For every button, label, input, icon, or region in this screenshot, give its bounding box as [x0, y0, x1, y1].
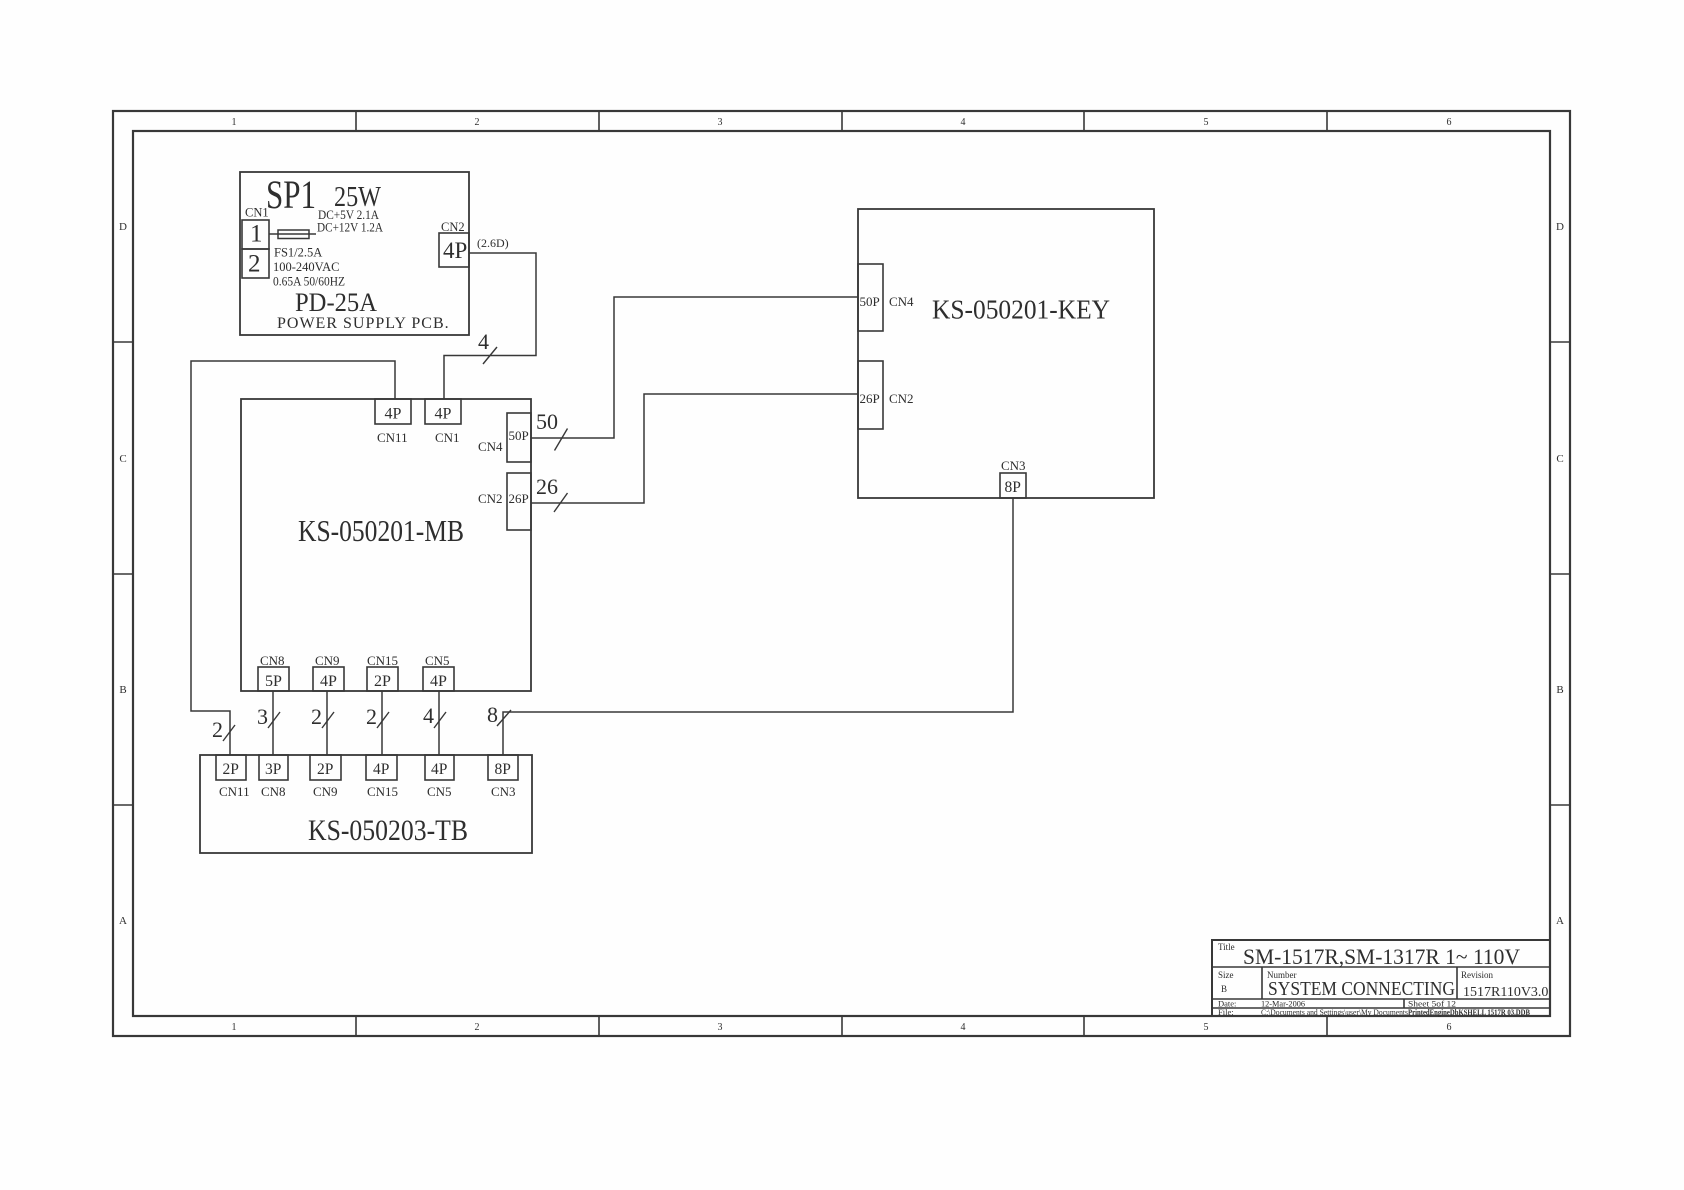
svg-text:2: 2 [311, 704, 322, 729]
svg-text:A: A [1556, 915, 1564, 927]
connector CN3 8P (KEY bottom) [1000, 458, 1026, 498]
svg-text:5: 5 [1204, 117, 1209, 128]
wire KEY CN3 to TB CN3 (8 lines) [503, 498, 1013, 755]
svg-text:0.65A 50/60HZ: 0.65A 50/60HZ [273, 275, 345, 289]
svg-text:CN8: CN8 [261, 784, 286, 799]
wire MB CN11 to TB CN11 [191, 361, 395, 755]
svg-text:4P: 4P [435, 406, 452, 423]
svg-text:CN1: CN1 [435, 430, 460, 445]
fuse FS1 [269, 230, 316, 239]
svg-text:2: 2 [212, 717, 223, 742]
svg-text:4P: 4P [320, 673, 337, 690]
svg-text:SP1: SP1 [266, 172, 316, 217]
svg-text:3P: 3P [265, 761, 281, 778]
svg-text:4P: 4P [385, 406, 402, 423]
connector CN5 4P (MB bottom) [423, 653, 454, 691]
svg-text:4: 4 [478, 329, 489, 354]
svg-text:PrintedEngineDbKSHELL 1517R 03: PrintedEngineDbKSHELL 1517R 03.DDB [1408, 1007, 1530, 1017]
connector CN5 4P (TB) [425, 755, 454, 799]
svg-text:FS1/2.5A: FS1/2.5A [274, 246, 322, 260]
svg-text:Size: Size [1218, 970, 1234, 980]
connector CN11 4P (MB top) [375, 399, 411, 445]
wire MB CN4 to KEY CN4 (50 lines) [531, 297, 858, 438]
svg-text:CN3: CN3 [491, 784, 516, 799]
svg-text:2: 2 [475, 117, 480, 128]
bus width label 26 [536, 474, 568, 512]
svg-text:CN1: CN1 [245, 206, 269, 220]
power supply block SP1 PD-25A [240, 172, 469, 335]
connector CN2 26P (KEY left) [858, 361, 914, 429]
svg-text:CN11: CN11 [377, 430, 408, 445]
svg-text:2: 2 [366, 704, 377, 729]
svg-text:CN2: CN2 [441, 220, 465, 234]
svg-text:100-240VAC: 100-240VAC [273, 260, 339, 274]
svg-text:PD-25A: PD-25A [295, 288, 377, 317]
svg-text:1: 1 [250, 221, 263, 248]
title block frame [1212, 940, 1550, 1016]
connector CN2 4P (SP1) [439, 220, 509, 267]
svg-text:CN3: CN3 [1001, 458, 1026, 473]
svg-text:50P: 50P [860, 294, 880, 309]
svg-text:B: B [1221, 984, 1227, 994]
svg-text:CN2: CN2 [889, 391, 914, 406]
svg-text:C:\Documents and Settings\user: C:\Documents and Settings\user\My Docume… [1261, 1007, 1408, 1017]
svg-text:CN4: CN4 [478, 439, 503, 454]
svg-text:C: C [1556, 453, 1563, 465]
svg-text:2P: 2P [223, 761, 239, 778]
connector CN1 (SP1) pins 1,2 [242, 206, 269, 279]
svg-text:1: 1 [232, 117, 237, 128]
bus width label 8 [487, 702, 511, 727]
connector CN2 26P (MB right) [478, 473, 531, 530]
svg-text:C: C [119, 453, 126, 465]
svg-text:CN15: CN15 [367, 653, 398, 668]
svg-text:3: 3 [718, 117, 723, 128]
svg-text:CN8: CN8 [260, 653, 285, 668]
bus width label 4 [478, 329, 497, 364]
svg-text:2P: 2P [374, 673, 391, 690]
bus width label 4 (CN5) [423, 703, 446, 728]
svg-text:CN9: CN9 [315, 653, 340, 668]
wire MB CN9 to TB CN9 [326, 691, 328, 755]
svg-text:5: 5 [1204, 1022, 1209, 1033]
title block texts [1218, 942, 1548, 1017]
svg-text:B: B [1556, 684, 1563, 696]
connector CN11 2P (TB) [216, 755, 250, 799]
connector CN3 8P (TB) [488, 755, 518, 799]
svg-text:B: B [119, 684, 126, 696]
mainboard block KS-050201-MB [241, 399, 531, 691]
bus width label 2 (CN15) [366, 704, 389, 729]
connector CN9 2P (TB) [310, 755, 341, 799]
wire MB CN2 to KEY CN2 (26 lines) [531, 394, 858, 503]
svg-text:3: 3 [257, 704, 268, 729]
svg-text:2: 2 [248, 251, 261, 278]
bus width label 2 (TB CN11) [212, 717, 235, 742]
svg-text:A: A [119, 915, 127, 927]
svg-text:CN5: CN5 [427, 784, 452, 799]
connector CN8 5P (MB bottom) [258, 653, 289, 691]
svg-text:50P: 50P [509, 428, 529, 443]
connector CN8 3P (TB) [259, 755, 288, 799]
svg-text:CN2: CN2 [478, 491, 503, 506]
connector CN15 2P (MB bottom) [367, 653, 398, 691]
connector CN4 50P (KEY left) [858, 264, 914, 331]
keyboard block KS-050201-KEY [858, 209, 1154, 498]
svg-text:DC+12V 1.2A: DC+12V 1.2A [317, 221, 383, 235]
svg-text:KS-050201-KEY: KS-050201-KEY [932, 295, 1110, 325]
svg-text:CN11: CN11 [219, 784, 250, 799]
svg-text:2: 2 [475, 1022, 480, 1033]
svg-text:CN9: CN9 [313, 784, 338, 799]
svg-text:Title: Title [1218, 942, 1235, 952]
svg-text:CN5: CN5 [425, 653, 450, 668]
svg-text:D: D [1556, 221, 1564, 233]
svg-text:CN15: CN15 [367, 784, 398, 799]
bus width label 3 [257, 704, 280, 729]
svg-text:6: 6 [1447, 117, 1452, 128]
svg-text:Revision: Revision [1461, 970, 1494, 980]
bus width label 2 (CN9) [311, 704, 334, 729]
svg-text:1517R110V3.0: 1517R110V3.0 [1463, 985, 1548, 1000]
connector CN4 50P (MB right) [478, 413, 531, 462]
svg-text:8P: 8P [495, 761, 511, 778]
svg-text:50: 50 [536, 409, 558, 434]
svg-text:SM-1517R,SM-1317R 1~ 110V: SM-1517R,SM-1317R 1~ 110V [1243, 944, 1520, 969]
svg-text:4: 4 [423, 703, 434, 728]
svg-text:D: D [119, 221, 127, 233]
svg-text:26: 26 [536, 474, 558, 499]
connector CN15 4P (TB) [366, 755, 398, 799]
svg-text:3: 3 [718, 1022, 723, 1033]
svg-text:8: 8 [487, 702, 498, 727]
svg-text:4: 4 [961, 1022, 966, 1033]
wire MB CN8 to TB CN8 [272, 691, 274, 755]
svg-text:4P: 4P [431, 761, 447, 778]
svg-text:4P: 4P [443, 238, 467, 263]
svg-text:26P: 26P [509, 491, 529, 506]
svg-text:26P: 26P [860, 391, 880, 406]
svg-text:4: 4 [961, 117, 966, 128]
svg-text:8P: 8P [1005, 479, 1021, 496]
wire MB CN5 to TB CN5 [438, 691, 440, 755]
connector CN1 4P (MB top) [425, 399, 461, 445]
svg-text:SYSTEM CONNECTING: SYSTEM CONNECTING [1268, 978, 1455, 1000]
svg-text:POWER SUPPLY PCB.: POWER SUPPLY PCB. [277, 315, 450, 332]
svg-text:1: 1 [232, 1022, 237, 1033]
svg-text:File:: File: [1218, 1007, 1234, 1017]
bus width label 50 [536, 409, 568, 451]
svg-text:4P: 4P [373, 761, 389, 778]
svg-text:2P: 2P [317, 761, 333, 778]
terminal board block KS-050203-TB [200, 755, 532, 853]
svg-text:KS-050203-TB: KS-050203-TB [308, 814, 468, 847]
connector CN9 4P (MB bottom) [313, 653, 344, 691]
svg-text:6: 6 [1447, 1022, 1452, 1033]
wire SP1 CN2 to MB CN1 [444, 253, 536, 399]
wire MB CN15 to TB CN15 [381, 691, 383, 755]
svg-text:(2.6D): (2.6D) [477, 236, 509, 250]
svg-text:KS-050201-MB: KS-050201-MB [298, 513, 464, 548]
svg-text:CN4: CN4 [889, 294, 914, 309]
svg-text:4P: 4P [430, 673, 447, 690]
svg-text:5P: 5P [265, 673, 282, 690]
